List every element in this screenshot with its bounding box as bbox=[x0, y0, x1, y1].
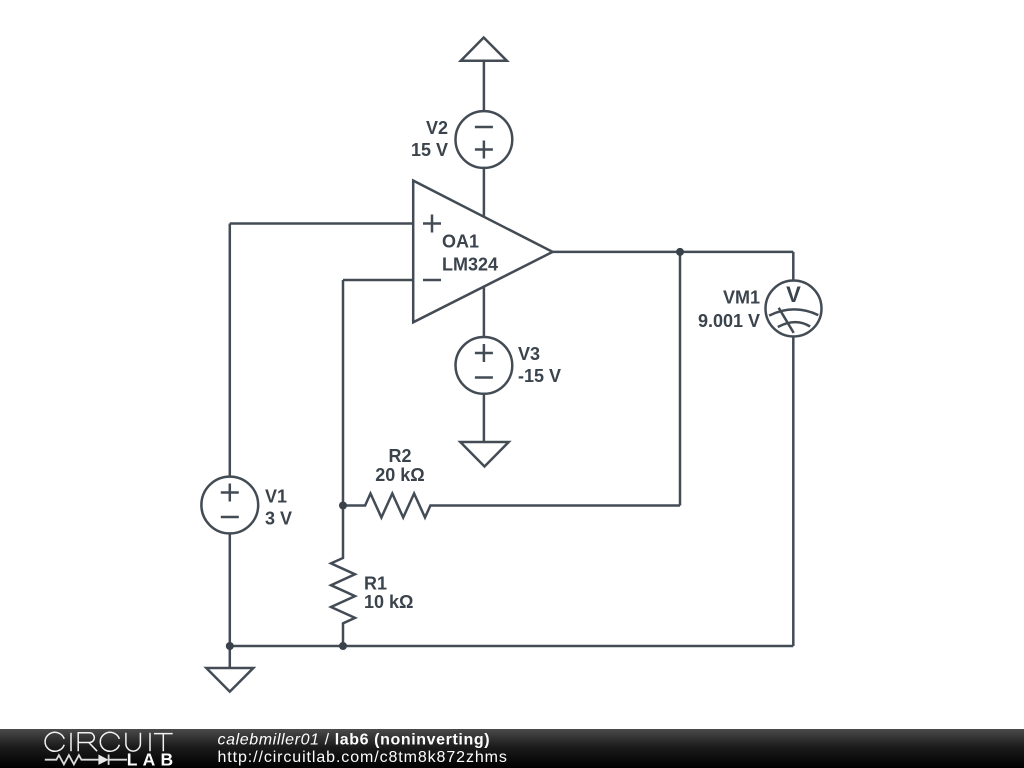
wire op-amp to V3 bbox=[483, 287, 486, 337]
bottom rail wire bbox=[230, 645, 794, 648]
svg-text:http://circuitlab.com/c8tm8k87: http://circuitlab.com/c8tm8k872zhms bbox=[218, 749, 508, 766]
svg-text:LM324: LM324 bbox=[442, 255, 498, 275]
ground bottom-left bbox=[206, 668, 253, 692]
svg-text:R1: R1 bbox=[364, 574, 387, 594]
wire V2 to op-amp power bbox=[483, 168, 486, 217]
wire plus input bbox=[230, 222, 413, 225]
svg-text:V3: V3 bbox=[518, 344, 540, 364]
logo resistor-diode symbol bbox=[45, 755, 127, 765]
wire feedback right vertical bbox=[679, 252, 682, 506]
svg-text:V: V bbox=[786, 282, 801, 307]
VCC power symbol bbox=[461, 38, 507, 61]
junction node R2/R1/feedback bbox=[339, 502, 347, 510]
svg-text:10 kΩ: 10 kΩ bbox=[364, 592, 413, 612]
logo diode bbox=[98, 755, 108, 765]
wire minus input bbox=[343, 279, 413, 282]
junction node R1 bottom bbox=[339, 642, 347, 650]
wire V1 to bottom rail bbox=[229, 533, 232, 668]
svg-text:VM1: VM1 bbox=[723, 288, 760, 308]
junction node output/feedback bbox=[676, 248, 684, 256]
wire output bbox=[553, 251, 794, 254]
svg-text:20 kΩ: 20 kΩ bbox=[375, 465, 424, 485]
svg-text:R2: R2 bbox=[388, 446, 411, 466]
voltmeter VM1 bbox=[766, 281, 822, 337]
wire VM1 to bottom rail bbox=[792, 337, 795, 647]
svg-text:15 V: 15 V bbox=[411, 140, 448, 160]
ground below V3 bbox=[460, 442, 508, 467]
op-amp plus input symbol bbox=[423, 222, 441, 225]
svg-text:3 V: 3 V bbox=[265, 509, 292, 529]
junction node V1 ground bbox=[226, 642, 234, 650]
voltage source V1 bbox=[201, 477, 258, 534]
svg-text:-15 V: -15 V bbox=[518, 366, 561, 386]
svg-text:LAB: LAB bbox=[127, 750, 179, 768]
voltage source V2 bbox=[456, 111, 513, 168]
logo CIRCUIT lettering bbox=[45, 732, 173, 751]
wire V3 to ground bbox=[483, 394, 486, 442]
voltage source V3 bbox=[456, 337, 513, 394]
logo LAB text bbox=[127, 750, 179, 768]
svg-text:V1: V1 bbox=[265, 487, 287, 507]
wire left vertical to V1 bbox=[229, 224, 232, 477]
wire feedback left vertical bbox=[342, 280, 345, 506]
op-amp OA1 triangle bbox=[413, 181, 552, 323]
resistor R2 bbox=[343, 494, 680, 518]
footer title text bbox=[218, 731, 491, 748]
wire VCC to V2 bbox=[483, 61, 486, 112]
footer url text bbox=[218, 749, 508, 766]
svg-text:V2: V2 bbox=[426, 118, 448, 138]
svg-text:calebmiller01 / lab6 (noninver: calebmiller01 / lab6 (noninverting) bbox=[218, 731, 491, 748]
op-amp minus input symbol bbox=[423, 279, 441, 282]
svg-text:9.001 V: 9.001 V bbox=[698, 311, 760, 331]
wire output down to VM1 bbox=[792, 252, 795, 281]
resistor R1 bbox=[331, 506, 355, 647]
svg-text:OA1: OA1 bbox=[442, 232, 479, 252]
